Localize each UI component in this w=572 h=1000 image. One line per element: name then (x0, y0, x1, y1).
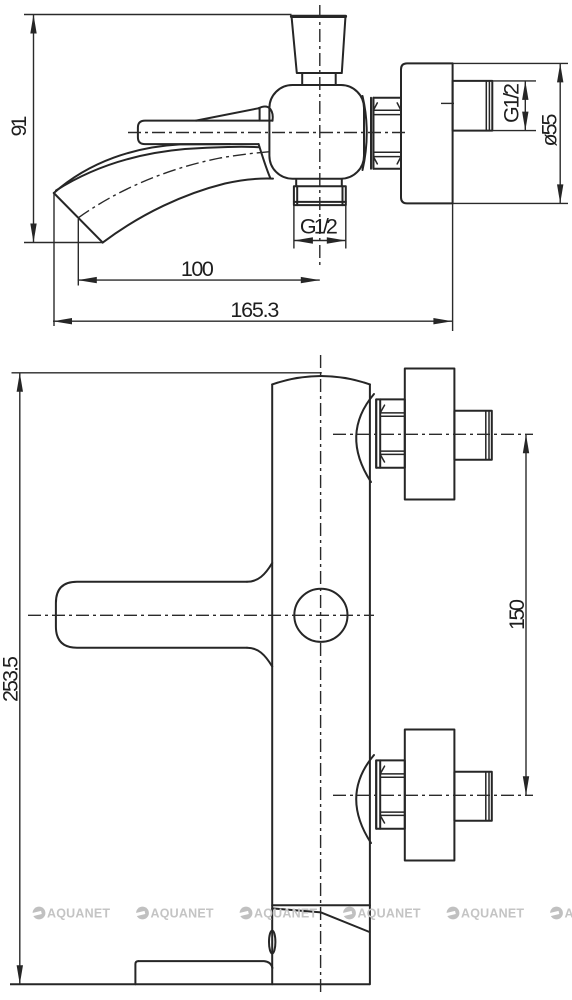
svg-text:ø55: ø55 (538, 113, 562, 146)
svg-text:165.3: 165.3 (230, 298, 279, 322)
svg-text:AQUANET: AQUANET (358, 907, 421, 921)
svg-text:150: 150 (505, 599, 529, 630)
svg-text:253.5: 253.5 (0, 656, 23, 702)
svg-text:AQUANET: AQUANET (151, 907, 214, 921)
svg-text:AQUANET: AQUANET (254, 907, 317, 921)
svg-text:AQUANET: AQUANET (565, 907, 572, 921)
svg-text:G1/2: G1/2 (500, 83, 524, 123)
svg-text:AQUANET: AQUANET (461, 907, 524, 921)
svg-text:100: 100 (181, 257, 214, 281)
svg-text:91: 91 (7, 116, 31, 137)
svg-text:G1/2: G1/2 (300, 215, 338, 239)
svg-text:AQUANET: AQUANET (47, 907, 110, 921)
